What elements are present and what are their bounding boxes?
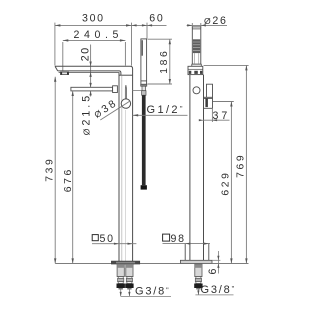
dim 6: [212, 251, 220, 274]
svg-text:Ø21.5: Ø21.5: [81, 93, 93, 135]
dim 629: [213, 102, 234, 264]
fitting pipe side: [194, 264, 202, 289]
dimension 240.5: [63, 40, 126, 70]
knob circle: [121, 99, 130, 108]
hand shower side view head: [192, 27, 201, 64]
fitting pipes front (left): [117, 264, 125, 289]
dimension 300 line: [55, 23, 167, 66]
dim 739: [54, 77, 56, 264]
square50 label: [92, 235, 98, 241]
svg-text:G3/8": G3/8": [135, 286, 170, 298]
dim 769: [204, 65, 249, 263]
svg-text:629: 629: [220, 170, 231, 195]
inner shaft lines: [194, 53, 198, 63]
arrows 300/60: [55, 24, 152, 26]
svg-text:98: 98: [171, 233, 186, 245]
dim 37: [203, 109, 230, 122]
dim 186: [148, 39, 173, 84]
square98 label: [163, 234, 170, 241]
svg-text:20: 20: [79, 46, 91, 61]
spout outline: [55, 66, 133, 261]
svg-text:300: 300: [82, 13, 105, 25]
knob stem: [125, 85, 126, 99]
svg-text:37: 37: [213, 110, 231, 122]
aerator: [61, 72, 69, 75]
column inner faint lines: [121, 76, 123, 262]
676 extension line segment right of column: [133, 90, 142, 92]
G3/8 leader front: [121, 290, 171, 297]
G3/8 leader side: [195, 290, 233, 295]
svg-text:240.5: 240.5: [74, 29, 124, 41]
svg-text:186: 186: [159, 49, 170, 74]
collar ring: [188, 66, 203, 74]
svg-text:Ø26: Ø26: [204, 15, 228, 27]
knurl band: [193, 39, 200, 53]
svg-text:60: 60: [149, 13, 164, 25]
phi38 leader: [100, 101, 130, 120]
hose: [142, 95, 146, 185]
fitting pipes front (right): [125, 264, 133, 289]
skirt bottom cover side: [185, 244, 209, 260]
floor extension line: [55, 263, 248, 265]
dimension 20 + phi21.5 shared line: [90, 45, 92, 97]
head flare: [192, 64, 202, 66]
svg-text:6: 6: [207, 267, 219, 275]
dim phi26: [187, 23, 227, 28]
base plate side: [180, 260, 212, 263]
svg-text:G3/8": G3/8": [201, 284, 236, 296]
svg-text:676: 676: [63, 167, 74, 192]
holder bracket side: [204, 84, 213, 108]
hand shower front view: [141, 39, 147, 84]
svg-text:739: 739: [44, 157, 55, 182]
column side view: [190, 75, 204, 261]
handle rod left: [71, 86, 118, 93]
dim 676: [72, 91, 74, 263]
G1/2 leader: [133, 114, 188, 116]
base plate front: [112, 261, 140, 264]
handle circle side: [193, 87, 200, 94]
svg-text:769: 769: [235, 153, 246, 178]
svg-text:G1/2": G1/2": [147, 104, 185, 116]
